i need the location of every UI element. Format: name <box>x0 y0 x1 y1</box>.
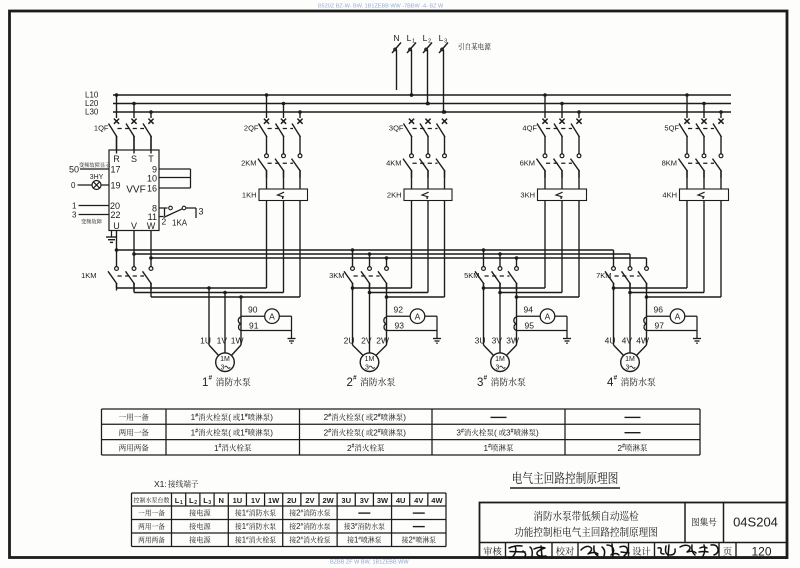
svg-text:3W: 3W <box>506 336 519 346</box>
svg-text:#: # <box>378 428 381 434</box>
svg-text:3: 3 <box>208 500 211 506</box>
svg-text:4QF: 4QF <box>522 124 537 133</box>
svg-text:3: 3 <box>495 365 499 372</box>
svg-text:120: 120 <box>751 545 771 559</box>
svg-text:3U: 3U <box>341 496 351 505</box>
svg-text:(: ( <box>228 413 231 422</box>
svg-text:#: # <box>378 413 381 419</box>
svg-text:19: 19 <box>111 181 121 191</box>
svg-text:#: # <box>328 428 331 434</box>
svg-text:L: L <box>407 33 412 43</box>
svg-text:91: 91 <box>249 320 259 330</box>
svg-text:3: 3 <box>199 207 204 217</box>
svg-text:#: # <box>353 375 357 382</box>
svg-text:2QF: 2QF <box>244 124 259 133</box>
svg-text:#: # <box>511 428 514 434</box>
svg-text:V: V <box>131 221 137 231</box>
svg-text:7KM: 7KM <box>596 271 611 280</box>
svg-text:(: ( <box>228 429 231 438</box>
svg-text:3V: 3V <box>492 336 503 346</box>
svg-text:#: # <box>352 444 355 450</box>
svg-text:1V: 1V <box>251 496 260 505</box>
svg-text:2: 2 <box>162 217 167 227</box>
svg-text:3: 3 <box>72 211 77 220</box>
svg-text:1W: 1W <box>231 336 244 346</box>
svg-text:#: # <box>413 536 416 541</box>
svg-text:8KM: 8KM <box>662 158 677 167</box>
svg-text:A: A <box>545 311 551 321</box>
svg-text:(: ( <box>494 429 497 438</box>
svg-text:4V: 4V <box>622 336 633 346</box>
svg-text:#: # <box>246 522 249 527</box>
svg-text:5KM: 5KM <box>464 271 479 280</box>
svg-text:97: 97 <box>655 320 665 330</box>
svg-text:1: 1 <box>412 39 415 45</box>
svg-text:96: 96 <box>654 305 664 315</box>
svg-text:17: 17 <box>111 165 121 175</box>
svg-text:2V: 2V <box>305 496 314 505</box>
svg-text:T: T <box>148 154 154 164</box>
svg-text:94: 94 <box>524 305 534 315</box>
svg-text:92: 92 <box>394 305 404 315</box>
svg-text:L: L <box>439 33 444 43</box>
svg-text:#: # <box>195 413 198 419</box>
svg-text:5QF: 5QF <box>664 124 679 133</box>
svg-text:3QF: 3QF <box>389 124 404 133</box>
svg-text:0: 0 <box>71 181 76 190</box>
svg-text:4W: 4W <box>636 336 649 346</box>
svg-text:10: 10 <box>147 174 157 184</box>
svg-text:#: # <box>484 375 488 382</box>
svg-text:#: # <box>488 444 491 450</box>
svg-text:1: 1 <box>180 500 183 506</box>
svg-text:#: # <box>219 444 222 450</box>
svg-text:#: # <box>195 428 198 434</box>
svg-text:22: 22 <box>111 210 121 220</box>
svg-text:N: N <box>393 33 399 43</box>
svg-text:W: W <box>147 221 156 231</box>
svg-text:3: 3 <box>477 377 483 389</box>
svg-text:2V: 2V <box>361 336 372 346</box>
svg-text:50: 50 <box>69 165 79 175</box>
svg-text:S: S <box>131 154 137 164</box>
svg-text:U: U <box>113 221 120 231</box>
svg-text:2W: 2W <box>322 496 334 505</box>
svg-text:2U: 2U <box>344 336 355 346</box>
svg-text:04S204: 04S204 <box>733 515 778 530</box>
svg-text:A: A <box>675 311 681 321</box>
svg-text:#: # <box>328 413 331 419</box>
svg-text:#: # <box>355 522 358 527</box>
svg-text:#: # <box>245 413 248 419</box>
svg-text:3U: 3U <box>475 336 486 346</box>
svg-text:(: ( <box>361 413 364 422</box>
svg-text:#: # <box>245 428 248 434</box>
svg-text:1: 1 <box>72 202 77 211</box>
svg-text:2KH: 2KH <box>387 191 402 200</box>
svg-text:2: 2 <box>194 500 197 506</box>
svg-text:#: # <box>246 536 249 541</box>
svg-text:4W: 4W <box>431 496 443 505</box>
svg-text:1M: 1M <box>495 356 505 363</box>
svg-text:1M: 1M <box>625 356 635 363</box>
svg-text:#: # <box>209 375 213 382</box>
svg-text:4U: 4U <box>396 496 406 505</box>
svg-text:1U: 1U <box>200 336 211 346</box>
svg-text:A: A <box>415 311 421 321</box>
svg-text:L30: L30 <box>85 108 99 117</box>
svg-text:(: ( <box>361 429 364 438</box>
svg-text:4KM: 4KM <box>386 158 401 167</box>
svg-text:4U: 4U <box>605 336 616 346</box>
svg-text:3: 3 <box>444 39 447 45</box>
svg-text:3: 3 <box>625 365 629 372</box>
svg-text:): ) <box>270 413 273 422</box>
svg-text:B520Z BZ-W- BW. 1B1ZEBB WW -7B: B520Z BZ-W- BW. 1B1ZEBB WW -7BBW -4- BZ … <box>318 4 444 10</box>
svg-text:1U: 1U <box>233 496 243 505</box>
svg-text:1KA: 1KA <box>172 219 188 228</box>
svg-text:3W: 3W <box>377 496 389 505</box>
svg-text:X1:: X1: <box>154 479 167 489</box>
svg-text:4KH: 4KH <box>662 191 677 200</box>
svg-text:): ) <box>270 429 273 438</box>
svg-text:2: 2 <box>347 377 353 389</box>
svg-text:): ) <box>403 429 406 438</box>
svg-text:): ) <box>403 413 406 422</box>
svg-text:95: 95 <box>525 320 535 330</box>
svg-text:#: # <box>358 536 361 541</box>
svg-text:VVF: VVF <box>126 185 145 196</box>
svg-text:#: # <box>461 428 464 434</box>
svg-text:3: 3 <box>365 365 369 372</box>
svg-text:2: 2 <box>428 39 431 45</box>
svg-text:6KM: 6KM <box>520 158 535 167</box>
svg-text:3: 3 <box>220 365 224 372</box>
svg-text:#: # <box>301 522 304 527</box>
svg-text:2U: 2U <box>287 496 297 505</box>
svg-text:3KH: 3KH <box>520 191 535 200</box>
svg-text:N: N <box>218 496 223 505</box>
svg-text:#: # <box>614 375 618 382</box>
svg-text:R: R <box>113 154 120 164</box>
svg-text:2W: 2W <box>376 336 389 346</box>
svg-text:4V: 4V <box>414 496 423 505</box>
svg-text:#: # <box>301 536 304 541</box>
svg-text:16: 16 <box>147 184 157 194</box>
svg-text:1M: 1M <box>365 356 375 363</box>
svg-text:1W: 1W <box>268 496 280 505</box>
svg-text:A: A <box>269 311 275 321</box>
svg-text:11: 11 <box>148 212 157 222</box>
svg-text:1M: 1M <box>220 356 230 363</box>
svg-text:#: # <box>301 509 304 514</box>
svg-text:L: L <box>423 33 428 43</box>
svg-text:1KM: 1KM <box>81 271 96 280</box>
svg-text:): ) <box>536 429 539 438</box>
svg-text:#: # <box>622 444 625 450</box>
svg-text:3V: 3V <box>360 496 369 505</box>
svg-text:90: 90 <box>248 305 258 315</box>
svg-text:93: 93 <box>395 320 405 330</box>
svg-text:1KH: 1KH <box>242 191 257 200</box>
svg-text:2KM: 2KM <box>241 158 256 167</box>
svg-text:1V: 1V <box>217 336 228 346</box>
svg-text:1: 1 <box>202 377 208 389</box>
svg-text:BZBB ZF W BW. 1B1ZEBB WW: BZBB ZF W BW. 1B1ZEBB WW <box>330 560 409 566</box>
svg-text:3KM: 3KM <box>329 271 344 280</box>
svg-text:1QF: 1QF <box>94 124 109 133</box>
svg-text:#: # <box>246 509 249 514</box>
